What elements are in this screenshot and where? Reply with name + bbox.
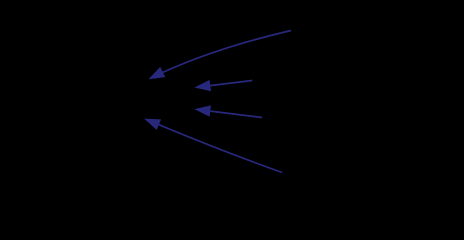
wire arrow 1 (top curved arrow) [149, 31, 292, 80]
wire arrow 3 (lower middle short arrow) [194, 105, 262, 117]
wire arrow 2 (upper middle short arrow) [194, 80, 252, 91]
wire arrow 4 (bottom curved arrow) [144, 119, 282, 173]
